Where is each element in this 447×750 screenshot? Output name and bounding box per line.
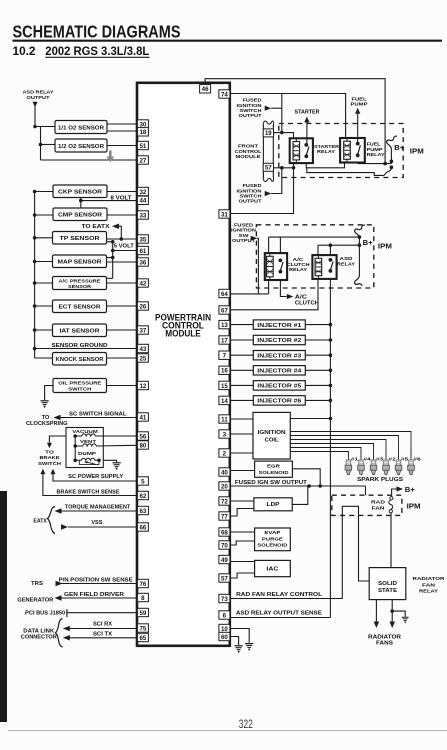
- svg-text:P/N POSITION SW SENSE: P/N POSITION SW SENSE: [59, 577, 134, 583]
- svg-text:322: 322: [239, 719, 253, 731]
- svg-text:10.2: 10.2: [13, 46, 36, 58]
- PCM pin 11 (right): [219, 415, 230, 423]
- wire: pin 19 to starter relay coil: [274, 133, 294, 139]
- wire: pin 10 to ground: [231, 629, 250, 643]
- PCM pin 7 (right): [219, 351, 230, 359]
- wire: TP to pin 35: [107, 238, 138, 240]
- wire: pin 73 rad fan control: [230, 506, 369, 598]
- wire: coil to spark plug #1: [290, 452, 348, 454]
- svg-text:3: 3: [223, 431, 227, 438]
- svg-text:SWITCH: SWITCH: [38, 461, 62, 467]
- wire: vent solenoid to pin 80: [98, 444, 137, 447]
- wire: pin 20 fused ign rail: [230, 485, 366, 487]
- wire+arrow: fuel pump output: [355, 108, 360, 114]
- wire: IAT to pin 37: [107, 329, 138, 331]
- starter relay coil: [295, 138, 297, 141]
- svg-text:#4: #4: [364, 456, 372, 461]
- PCM pin 31 (right): [219, 210, 230, 218]
- wire: fuel pump switch rail: [357, 163, 359, 164]
- svg-text:A/C: A/C: [295, 295, 308, 301]
- svg-text:65: 65: [139, 635, 146, 642]
- arrow: fused ign lower: [265, 191, 272, 196]
- svg-text:COIL: COIL: [265, 438, 280, 444]
- svg-text:12: 12: [139, 383, 146, 390]
- svg-text:B+: B+: [363, 240, 373, 247]
- PCM pin 76 (left): [137, 579, 148, 587]
- svg-text:74: 74: [221, 91, 228, 98]
- sensor MAP SENSOR: [53, 255, 107, 268]
- svg-text:GENERATOR: GENERATOR: [17, 598, 53, 604]
- svg-text:SC POWER SUPPLY: SC POWER SUPPLY: [68, 474, 124, 480]
- svg-text:SOLENOID: SOLENOID: [259, 470, 290, 476]
- PCM pin 25 (left): [137, 354, 148, 362]
- spark plug #1: [347, 453, 349, 461]
- PCM pin 75 (left): [137, 624, 148, 632]
- wire: 1/1 O2 to pin 30: [107, 123, 137, 125]
- svg-text:GEN FIELD DRIVER: GEN FIELD DRIVER: [64, 592, 124, 598]
- relay K1 STARTER RELAY box: [290, 138, 313, 163]
- svg-text:61: 61: [139, 248, 146, 255]
- wire: PCI bus pin 59: [66, 609, 68, 617]
- wire: 5 volt to pin 61: [113, 250, 138, 252]
- A/C clutch relay switch: [279, 259, 283, 263]
- wire: MAP to pin 36: [107, 261, 138, 263]
- svg-text:20: 20: [221, 483, 228, 490]
- svg-text:70: 70: [221, 542, 228, 549]
- wire: pin 68 to EVAP: [230, 531, 255, 533]
- svg-text:27: 27: [139, 157, 146, 164]
- wire: B+ fuse link lower: [307, 167, 392, 176]
- wire: B+ rail 1 (switch tops): [269, 236, 360, 238]
- svg-text:ASD RELAY OUTPUT SENSE: ASD RELAY OUTPUT SENSE: [236, 611, 323, 617]
- svg-text:OIL PRESSURE: OIL PRESSURE: [58, 381, 102, 387]
- PCM pin 35 (left): [137, 235, 148, 243]
- svg-text:RADIATOR: RADIATOR: [413, 576, 446, 582]
- svg-text:SCHEMATIC DIAGRAMS: SCHEMATIC DIAGRAMS: [13, 21, 181, 41]
- FCM connector channel: [262, 125, 264, 178]
- PCM pin 8 (left): [137, 593, 148, 601]
- injector #4: [253, 366, 305, 375]
- PCM pin 49 (right): [219, 555, 230, 563]
- svg-text:SENSOR: SENSOR: [68, 284, 92, 289]
- svg-text:SCI RX: SCI RX: [93, 621, 113, 627]
- svg-text:6: 6: [223, 612, 227, 619]
- svg-text:MODULE: MODULE: [236, 154, 261, 159]
- PCM pin 13 (right): [219, 320, 230, 328]
- svg-text:26: 26: [139, 303, 146, 310]
- wire: A/C pres 5v feed: [107, 277, 113, 279]
- PCM pin 74 (right): [219, 90, 230, 98]
- starter relay switch: [304, 143, 308, 147]
- svg-text:44: 44: [139, 198, 146, 205]
- wire: solid state output 2: [391, 600, 393, 622]
- PCM pin 5 (left): [137, 477, 148, 485]
- rad fan relay element: [390, 497, 393, 500]
- sensor IAT SENSOR: [53, 324, 107, 337]
- relay K3 A/C CLUTCH RELAY box: [265, 253, 287, 280]
- wire: brake switch sense pin 62: [43, 475, 137, 496]
- ground (servo): [113, 463, 121, 470]
- spark plug #2: [385, 453, 387, 461]
- wire: pin 77 to LDP: [230, 509, 254, 517]
- solenoid coil: vent: [75, 444, 98, 446]
- wire: sensor ground to pin 43: [35, 348, 138, 350]
- svg-text:SOLENOID: SOLENOID: [257, 543, 288, 549]
- PCM pin 2 (right): [219, 449, 230, 457]
- wire: coil to spark plug #6: [290, 432, 411, 454]
- PCM pin 14 (right): [219, 396, 230, 404]
- wire: LDP fused feed: [292, 487, 308, 505]
- svg-text:FANS: FANS: [376, 641, 394, 647]
- wire: 8 volt feed pin 44: [81, 200, 138, 202]
- svg-text:TO: TO: [45, 449, 54, 455]
- svg-text:18: 18: [139, 129, 146, 136]
- wire: VSS pin 66: [68, 526, 137, 528]
- svg-text:32: 32: [139, 189, 146, 196]
- wire: O2 return to pin 27: [41, 159, 138, 161]
- wire: 1/1 O2 to pin 18: [107, 130, 137, 132]
- svg-text:5: 5: [141, 478, 145, 485]
- wire: pin 2 to coil: [230, 452, 253, 454]
- PCM pin 77 (right): [219, 512, 230, 520]
- sensor ECT SENSOR: [53, 300, 107, 313]
- injector #1: [253, 320, 305, 329]
- svg-text:35: 35: [139, 236, 146, 243]
- svg-text:MAP SENSOR: MAP SENSOR: [58, 260, 102, 266]
- wire: torque management pin 63: [62, 510, 138, 512]
- PCM pin 17 (right): [219, 336, 230, 344]
- wire: pin 72 to LDP: [230, 500, 254, 502]
- svg-text:#2: #2: [389, 456, 397, 461]
- svg-text:2002 RGS 3.3L/3.8L: 2002 RGS 3.3L/3.8L: [45, 46, 149, 58]
- PCM pin 59 (left): [137, 608, 148, 616]
- svg-text:RELAY: RELAY: [367, 152, 386, 157]
- left black sidebar: [0, 491, 7, 722]
- svg-text:IPM: IPM: [410, 149, 424, 156]
- svg-text:CONNECTOR: CONNECTOR: [21, 635, 57, 641]
- PCM pin 73 (right): [219, 594, 230, 602]
- svg-text:57: 57: [265, 166, 272, 172]
- PCM pin 33 (left): [137, 211, 148, 219]
- svg-text:#6: #6: [414, 456, 422, 461]
- svg-text:5 VOLT: 5 VOLT: [114, 243, 134, 249]
- svg-text:INJECTOR #1: INJECTOR #1: [257, 323, 301, 329]
- wire: coil to spark plug #3: [290, 444, 373, 454]
- wire: fcm pin19 riser: [281, 94, 283, 133]
- sensor bus (left vertical): [34, 192, 36, 359]
- IAC motor box: [255, 560, 291, 576]
- switch S1 OIL PRESSURE SWITCH: [53, 379, 107, 393]
- wire: ECT to pin 26: [107, 305, 138, 307]
- wire: pin 70 to EVAP: [230, 541, 255, 545]
- wire: servo to brake switch: [49, 436, 66, 443]
- svg-text:36: 36: [139, 259, 146, 266]
- svg-text:63: 63: [139, 508, 146, 515]
- svg-text:IAT SENSOR: IAT SENSOR: [60, 329, 100, 335]
- svg-text:11: 11: [221, 416, 228, 423]
- svg-text:42: 42: [139, 280, 146, 287]
- node B+ (IPM3): [392, 489, 397, 497]
- wire: pin 6 asd sense: [230, 617, 331, 619]
- wire: ASD feed to O2 heaters: [35, 126, 55, 128]
- wire: pin 74 fused ign feed: [231, 94, 346, 139]
- ground (oil pressure switch): [41, 401, 49, 408]
- svg-text:60: 60: [221, 634, 228, 641]
- wire: pin 57 rail: [274, 167, 294, 169]
- PCM pin 43 (left): [137, 344, 148, 352]
- sensor 1/1 O2 SENSOR: [55, 121, 107, 134]
- svg-text:TRS: TRS: [31, 581, 44, 587]
- svg-text:TP SENSOR: TP SENSOR: [60, 236, 100, 242]
- svg-text:FUSED IGN SW OUTPUT: FUSED IGN SW OUTPUT: [235, 480, 308, 486]
- svg-text:RELAY: RELAY: [419, 589, 439, 595]
- svg-text:DUMP: DUMP: [78, 451, 97, 457]
- svg-text:FAN: FAN: [372, 506, 386, 512]
- O2 ground-direction arrow (gray): [109, 151, 112, 157]
- wire: pin 60 to ground: [231, 637, 239, 646]
- PCM pin 37 (left): [137, 326, 148, 334]
- svg-text:67: 67: [221, 307, 228, 314]
- svg-text:43: 43: [139, 346, 146, 353]
- relay K4 ASD RELAY box: [312, 255, 336, 279]
- svg-text:KNOCK SENSOR: KNOCK SENSOR: [56, 357, 104, 363]
- svg-text:16: 16: [221, 368, 228, 375]
- PCM box U1 (Powertrain Control Module): [137, 83, 230, 646]
- svg-text:CMP SENSOR: CMP SENSOR: [58, 213, 102, 219]
- svg-text:RADIATOR: RADIATOR: [368, 635, 401, 641]
- svg-text:LDP: LDP: [267, 502, 281, 508]
- PCM pin 6 (right): [219, 611, 230, 619]
- svg-text:#3: #3: [376, 456, 384, 461]
- wire: ASD coil control (pin 67): [230, 279, 318, 310]
- svg-text:INJECTOR #5: INJECTOR #5: [257, 384, 301, 390]
- svg-text:SPARK PLUGS: SPARK PLUGS: [357, 477, 403, 483]
- arrow: fused ign upper: [265, 106, 272, 111]
- svg-text:14: 14: [221, 398, 228, 405]
- injector #5: [253, 381, 305, 390]
- svg-text:ECT SENSOR: ECT SENSOR: [59, 305, 101, 311]
- solid state relay box: [369, 568, 406, 600]
- ASD relay switch: [329, 258, 333, 262]
- spark plug #6: [410, 453, 412, 461]
- PCM pin 60 (right): [219, 632, 230, 640]
- svg-text:41: 41: [139, 414, 146, 421]
- PCM pin 10 (right): [219, 624, 230, 632]
- wire: starter coil to pin 31: [230, 163, 294, 213]
- wire: oil pressure to pin 12: [107, 385, 138, 387]
- ground (pin 10): [245, 644, 253, 651]
- sensor CMP SENSOR: [53, 208, 107, 221]
- PCM pin 18 (left): [137, 128, 148, 136]
- PCM pin 68 (right): [219, 528, 230, 536]
- svg-text:ASD RELAY: ASD RELAY: [23, 90, 55, 96]
- wire: pin 49 to IAC: [230, 561, 255, 563]
- injector #2: [253, 335, 305, 344]
- svg-text:IAC: IAC: [266, 567, 278, 573]
- svg-text:68: 68: [221, 529, 228, 536]
- wire: coil to spark plug #5: [290, 436, 398, 454]
- arrow: fused ign IPM2: [251, 236, 258, 241]
- PCM pin 72 (right): [219, 497, 230, 505]
- wire: solid state output 1: [375, 600, 377, 622]
- PCM pin 63 (left): [137, 506, 148, 514]
- ignition coil T1 box: [253, 412, 290, 459]
- svg-text:64: 64: [221, 291, 228, 298]
- servo dump redundant switch: [78, 460, 80, 464]
- svg-text:IPM: IPM: [407, 504, 421, 511]
- svg-text:33: 33: [139, 212, 146, 219]
- wire: SCI TX pin 65: [70, 637, 138, 639]
- node B+ (IPM2): [358, 238, 360, 276]
- PCM pin 20 (right): [219, 482, 230, 490]
- spark plug #4: [360, 453, 362, 461]
- svg-text:8: 8: [141, 595, 145, 602]
- wire: oil pressure to ground: [45, 386, 53, 401]
- wire: SC switch signal pin 41: [60, 417, 137, 419]
- svg-text:OUTPUT: OUTPUT: [239, 199, 262, 204]
- ground (pin 60): [235, 646, 243, 653]
- PCM pin 66 (left): [137, 523, 148, 531]
- wire: pin 3 to coil: [230, 433, 253, 435]
- svg-text:STARTER: STARTER: [295, 109, 320, 115]
- svg-text:BRAKE: BRAKE: [40, 455, 61, 461]
- svg-text:OUTPUT: OUTPUT: [27, 95, 50, 101]
- sensor 1/2 O2 SENSOR: [55, 139, 107, 152]
- wire: gen field driver pin 8: [61, 597, 137, 599]
- solenoid coil: dump: [75, 458, 99, 460]
- wire: coil B+ feed from bus: [290, 418, 330, 420]
- wire: P/N position pin 76: [60, 583, 137, 585]
- wire: A/C pres to pin 42: [107, 282, 138, 284]
- solenoid EGR box: [255, 461, 293, 477]
- PCM pin 32 (left): [137, 187, 148, 195]
- svg-text:76: 76: [139, 581, 146, 588]
- IPM 3 dashed box: [332, 495, 402, 515]
- PCM pin 51 (left): [137, 141, 148, 149]
- spark plug #5: [398, 453, 400, 461]
- svg-text:13: 13: [221, 322, 228, 329]
- svg-text:49: 49: [221, 557, 228, 564]
- svg-text:SCI TX: SCI TX: [93, 632, 113, 638]
- svg-text:62: 62: [139, 493, 146, 500]
- fuel pump relay coil: [346, 138, 348, 141]
- svg-text:INJECTOR #6: INJECTOR #6: [257, 399, 301, 405]
- PCM pin 42 (left): [137, 279, 148, 287]
- wire: fused rail to IPM3: [365, 486, 367, 495]
- svg-text:CKP SENSOR: CKP SENSOR: [58, 190, 102, 196]
- svg-text:INJECTOR #4: INJECTOR #4: [257, 369, 301, 375]
- svg-text:73: 73: [221, 596, 228, 603]
- wire: vacuum solenoid to pin 56: [99, 435, 138, 437]
- PCM pin 12 (left): [137, 381, 148, 389]
- svg-text:PURGE: PURGE: [262, 536, 284, 542]
- svg-text:EATX: EATX: [33, 518, 47, 524]
- svg-text:46: 46: [202, 86, 209, 93]
- solenoid EVAP PURGE box: [255, 528, 291, 551]
- svg-text:31: 31: [221, 211, 228, 218]
- svg-text:19: 19: [265, 131, 272, 137]
- wire: SCI RX pin 75: [70, 628, 138, 630]
- svg-text:RAD: RAD: [371, 499, 386, 505]
- PCM pin 41 (left): [137, 413, 148, 421]
- wire: A/C switch riser: [279, 237, 281, 253]
- svg-text:BRAKE SWITCH SENSE: BRAKE SWITCH SENSE: [57, 490, 121, 496]
- PCM pin 44 (left): [137, 196, 148, 204]
- PCM pin 46 (top): [200, 85, 211, 93]
- sensor CKP SENSOR: [53, 185, 107, 198]
- svg-text:B+: B+: [394, 145, 404, 152]
- wire: A/C clutch output: [280, 280, 286, 297]
- svg-text:1/1 O2 SENSOR: 1/1 O2 SENSOR: [58, 125, 104, 131]
- PCM pin 62 (left): [137, 491, 148, 499]
- sensor A/C PRESSURE SENSOR: [53, 277, 107, 290]
- ground (radiator fan relay): [402, 617, 409, 623]
- wire: starter switch to fp coil rail: [306, 163, 344, 168]
- svg-text:RELAY: RELAY: [289, 267, 308, 272]
- svg-text:25: 25: [139, 355, 146, 362]
- injector #3: [253, 351, 305, 360]
- svg-text:CLOCKSPRING: CLOCKSPRING: [26, 421, 68, 427]
- wire+arrow: starter output: [304, 117, 309, 123]
- wire: pin 57b to IAC: [230, 573, 255, 578]
- sensor KNOCK SENSOR: [53, 353, 107, 366]
- IPM 2 dashed box: [256, 225, 373, 288]
- svg-text:OUTPUT: OUTPUT: [239, 113, 262, 118]
- svg-text:RELAY: RELAY: [317, 149, 336, 154]
- 5 volt riser: [107, 241, 113, 243]
- FCM pin 19: [263, 129, 273, 137]
- svg-text:RELAY: RELAY: [337, 261, 356, 266]
- svg-text:EVAP: EVAP: [264, 530, 281, 536]
- PCM pin 36 (left): [137, 258, 148, 266]
- svg-text:2: 2: [223, 450, 227, 457]
- svg-text:75: 75: [139, 625, 146, 632]
- wire: pin 11 to coil: [230, 418, 253, 420]
- svg-text:SOLID: SOLID: [378, 581, 397, 587]
- svg-text:B+: B+: [405, 487, 415, 494]
- svg-text:INJECTOR #3: INJECTOR #3: [257, 353, 301, 359]
- svg-text:VSS: VSS: [91, 520, 103, 526]
- IPM 1 dashed box: [279, 124, 403, 178]
- PCM pin 70 (right): [219, 541, 230, 549]
- svg-text:MODULE: MODULE: [165, 328, 201, 338]
- ASD relay output feed arrow: [33, 102, 38, 108]
- wire: CKP to pin 32: [107, 191, 137, 193]
- svg-text:SC SWITCH SIGNAL: SC SWITCH SIGNAL: [69, 412, 127, 418]
- svg-text:#5: #5: [401, 456, 409, 461]
- wire: pin 46 to fuel pump relay rail: [205, 79, 385, 164]
- wire: servo to ground: [103, 460, 116, 462]
- PCM pin 56 (left): [137, 432, 148, 440]
- A/C clutch relay coil: [269, 253, 271, 256]
- ASD output bus: [329, 279, 331, 618]
- fuel pump relay switch: [356, 142, 360, 146]
- svg-text:STATE: STATE: [378, 588, 398, 594]
- wire: coil to spark plug #2: [290, 440, 386, 454]
- svg-text:SWITCH: SWITCH: [68, 386, 92, 392]
- wire: solid state ground branch: [392, 611, 405, 616]
- svg-text:40: 40: [221, 469, 228, 476]
- wire: A/C relay coil control (pin 64): [230, 293, 269, 295]
- injector #6: [253, 396, 305, 405]
- wire: SC power supply pin 5: [53, 475, 137, 482]
- PCM pin 67 (right): [219, 306, 230, 314]
- PCM pin 64 (right): [219, 289, 230, 297]
- PCM pin 15 (right): [219, 381, 230, 389]
- wire: coil to spark plug #4: [290, 448, 361, 454]
- wire: 1/2 O2 to pin 51: [107, 145, 137, 147]
- svg-text:#1: #1: [351, 456, 359, 461]
